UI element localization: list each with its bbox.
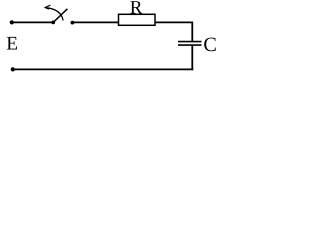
capacitor C: bottom plate (178, 44, 202, 46)
wire: top rail, resistor to top-right corner (155, 21, 193, 23)
switch K: motion arrow arc (46, 8, 64, 21)
node: bottom-left terminal of E (11, 67, 15, 71)
wire: right vertical, capacitor bottom plate down to bottom rail (191, 46, 193, 70)
switch K: motion arrow head (45, 5, 50, 9)
svg-text:R: R (130, 0, 143, 19)
switch K: right contact node (71, 21, 75, 25)
svg-text:C: C (203, 34, 216, 56)
wire: right vertical, corner down to capacitor top plate (191, 22, 193, 41)
wire: bottom rail, E terminal to right vertical (13, 68, 194, 70)
capacitor C: top plate (178, 41, 202, 43)
switch K: blade (open) (53, 9, 67, 23)
svg-text:E: E (6, 34, 18, 55)
wire: top rail, switch to resistor (72, 21, 118, 23)
resistor R (box) (119, 14, 156, 25)
switch K: left contact node (51, 21, 55, 25)
node: top-left terminal of E (10, 20, 14, 24)
wire: top rail, E terminal to switch left contact (12, 21, 53, 23)
